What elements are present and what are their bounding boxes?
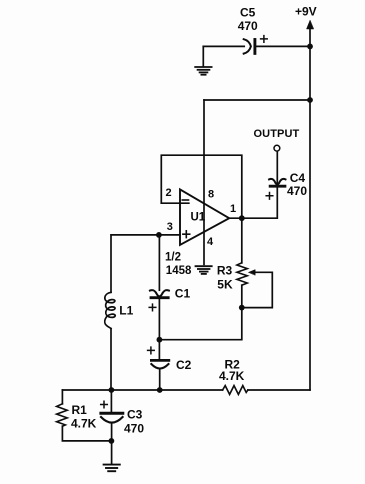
svg-text:1/2: 1/2 xyxy=(165,251,181,263)
svg-text:470: 470 xyxy=(287,184,307,198)
potentiometer R3 body xyxy=(237,218,247,307)
svg-text:OUTPUT: OUTPUT xyxy=(254,128,300,140)
capacitor C5 xyxy=(244,36,268,54)
svg-text:C5: C5 xyxy=(240,6,256,20)
wire V+ pin8 to rail xyxy=(204,99,310,101)
feedback wire box pin2 to output xyxy=(161,155,242,218)
svg-text:+9V: +9V xyxy=(295,5,317,19)
svg-text:4: 4 xyxy=(207,236,214,248)
svg-text:U1: U1 xyxy=(191,212,206,224)
svg-text:5K: 5K xyxy=(217,278,233,292)
capacitor C2 xyxy=(148,340,169,390)
wire C4 to output terminal xyxy=(276,151,278,183)
plus sign pin3 xyxy=(183,231,190,238)
wire C1 bottom xyxy=(158,299,160,340)
svg-text:L1: L1 xyxy=(119,304,133,318)
capacitor C4 xyxy=(266,179,285,199)
capacitor C1 xyxy=(149,290,169,311)
junction dot C2 bottom xyxy=(157,387,163,393)
svg-text:C3: C3 xyxy=(127,408,143,422)
bottom wire left xyxy=(62,389,222,391)
svg-text:3: 3 xyxy=(167,221,173,233)
svg-text:4.7K: 4.7K xyxy=(71,417,97,431)
ground (bottom) xyxy=(104,465,120,472)
output terminal circle xyxy=(274,145,280,151)
wire pin 3 xyxy=(111,234,180,236)
svg-text:8: 8 xyxy=(208,189,214,201)
wire pin8 pin4 vertical xyxy=(203,100,205,264)
wire output pin1 xyxy=(229,188,277,219)
svg-text:470: 470 xyxy=(124,421,144,435)
+9V rail wire xyxy=(309,46,311,390)
op-amp U1 triangle xyxy=(180,189,229,245)
wire C1 top xyxy=(158,235,160,290)
svg-text:2: 2 xyxy=(166,187,172,199)
+9V supply arrow xyxy=(307,20,314,46)
svg-text:4.7K: 4.7K xyxy=(219,369,245,383)
junction dot C1/C2 xyxy=(157,337,163,343)
pin 2 stub xyxy=(161,202,189,204)
wire C5 row xyxy=(203,46,310,65)
ground (top, C5) xyxy=(195,67,211,75)
junction dot rail/C5 xyxy=(307,44,313,50)
svg-text:1458: 1458 xyxy=(166,265,192,277)
wire R3 to C1C2 junction xyxy=(159,308,241,340)
resistor R2 xyxy=(223,386,248,395)
svg-text:470: 470 xyxy=(238,19,258,33)
svg-text:1: 1 xyxy=(230,203,236,215)
minus sign xyxy=(182,199,188,201)
wire to bottom ground xyxy=(111,441,113,463)
bottom wire right to rail xyxy=(248,389,310,391)
svg-text:R1: R1 xyxy=(72,403,88,417)
junction dot rail/pin8 xyxy=(307,97,313,103)
junction dot C3/R1 bottom xyxy=(109,438,115,444)
junction dot R3 bottom xyxy=(239,305,245,311)
capacitor C3 xyxy=(101,390,123,441)
svg-text:R3: R3 xyxy=(217,263,233,277)
inductor L1 xyxy=(105,235,115,390)
junction dot pin3/C1 xyxy=(156,232,162,238)
R3 wiper arrow xyxy=(245,270,273,308)
junction dot output xyxy=(239,215,245,221)
ground (pin 4) xyxy=(196,266,212,274)
svg-text:C2: C2 xyxy=(176,358,192,372)
resistor R1 xyxy=(57,390,112,441)
svg-text:C1: C1 xyxy=(175,287,191,301)
junction dot L1 bottom xyxy=(109,387,115,393)
